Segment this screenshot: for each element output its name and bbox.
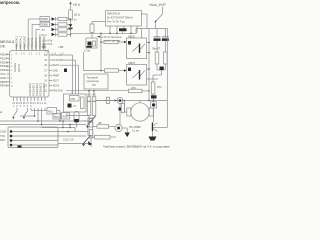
svg-text:ПОВВ: ПОВВ	[41, 18, 48, 21]
svg-text:12 мк: 12 мк	[132, 128, 140, 132]
svg-text:резонатор: резонатор	[87, 80, 100, 83]
svg-text:+5 V: +5 V	[73, 3, 81, 7]
svg-text:5п ЮТ ЕМ ЮТ ЕМпА: 5п ЮТ ЕМ ЮТ ЕМпА	[107, 15, 133, 19]
svg-text:1,0: 1,0	[45, 49, 49, 53]
svg-text:ГМ: ГМ	[92, 83, 96, 87]
svg-text:ТХD: ТХD	[0, 135, 5, 138]
svg-text:PC1/ADC1: PC1/ADC1	[32, 83, 36, 96]
svg-text:47 k: 47 k	[74, 13, 80, 17]
svg-text:305: 305	[71, 97, 76, 101]
svg-text:PD6/AIN0: PD6/AIN0	[27, 37, 30, 49]
svg-text:PB5 SCK: PB5 SCK	[53, 90, 64, 93]
svg-text:ADC6: ADC6	[53, 85, 60, 88]
svg-text:Тактовый: Тактовый	[87, 76, 99, 80]
svg-text:AGND1: AGND1	[13, 63, 17, 72]
svg-text:VCC: VCC	[0, 72, 6, 76]
svg-text:PD1/T: PD1/T	[0, 56, 8, 60]
svg-text:ПИС761-8: ПИС761-8	[107, 12, 120, 16]
svg-text:Рп+т: Рп+т	[42, 34, 48, 37]
svg-text:Тумблер перекл. ВКЛ/ВЫКЛ на 3: Тумблер перекл. ВКЛ/ВЫКЛ на 3 А. в подст…	[103, 145, 170, 149]
svg-text:ИСз: ИСз	[48, 110, 54, 114]
svg-text:PC0/ADC0: PC0/ADC0	[53, 59, 66, 62]
svg-text:AREF: AREF	[53, 74, 60, 77]
svg-text:Пф ИТ: Пф ИТ	[152, 47, 161, 51]
svg-text:AVCC1: AVCC1	[17, 63, 21, 72]
svg-text:PD2/I0: PD2/I0	[0, 60, 8, 64]
svg-text:PC3/ADC3: PC3/ADC3	[39, 83, 43, 96]
svg-text:И7а И7а: И7а И7а	[42, 39, 53, 43]
svg-text:PD0/R: PD0/R	[0, 53, 8, 57]
svg-text:+Ucc_НЧТ: +Ucc_НЧТ	[149, 3, 166, 7]
svg-text:PB0/ICP1: PB0/ICP1	[35, 37, 38, 49]
svg-text:RХD: RХD	[0, 139, 5, 142]
svg-text:PC1/ADC1: PC1/ADC1	[53, 54, 66, 57]
svg-text:НО, АЗ: НО, АЗ	[87, 92, 96, 96]
svg-text:ВК-25ВМ: ВК-25ВМ	[130, 125, 142, 129]
svg-text:АОВ: АОВ	[63, 115, 69, 118]
svg-text:с7 во: с7 во	[84, 49, 91, 53]
svg-text:1n: 1n	[74, 18, 78, 22]
svg-text:PB6/XTAL1: PB6/XTAL1	[16, 35, 19, 48]
svg-text:REST: REST	[53, 64, 60, 67]
svg-text:PD5/T1/OC: PD5/T1/OC	[23, 36, 26, 49]
svg-text:С1б С1б: С1б С1б	[63, 137, 74, 141]
svg-text:PB7/XTAL2: PB7/XTAL2	[20, 35, 23, 48]
svg-text:И7а И7а: И7а И7а	[42, 42, 53, 46]
svg-text:PB6/X: PB6/X	[0, 80, 8, 84]
svg-text:GND: GND	[0, 76, 6, 80]
svg-text:0 1: 0 1	[73, 104, 77, 108]
svg-text:Rпт % Эп Тцд: Rпт % Эп Тцд	[107, 19, 125, 23]
svg-text:PD7/AIN1: PD7/AIN1	[31, 37, 34, 49]
svg-text:СОМ: СОМ	[0, 131, 6, 134]
svg-text:И8: И8	[98, 121, 102, 125]
svg-text:PB7/X: PB7/X	[0, 84, 8, 88]
svg-text:ПОВВ: ПОВВ	[41, 24, 48, 27]
svg-text:PD4/X: PD4/X	[0, 68, 8, 72]
svg-text:PC0/ADC0: PC0/ADC0	[28, 83, 32, 96]
svg-text:PD3/I1: PD3/I1	[0, 64, 8, 68]
svg-text:+5В: +5В	[58, 45, 63, 49]
svg-text:GND: GND	[53, 69, 59, 72]
svg-text:мпресом.: мпресом.	[0, 0, 20, 5]
svg-text:ADC7: ADC7	[53, 80, 60, 83]
svg-text:Опто беспере-: Опто беспере-	[104, 35, 122, 39]
svg-text:PC2/ADC2: PC2/ADC2	[35, 83, 39, 96]
svg-text:MEGA 8: MEGA 8	[0, 40, 14, 44]
svg-text:НЧБ: НЧБ	[54, 116, 59, 119]
